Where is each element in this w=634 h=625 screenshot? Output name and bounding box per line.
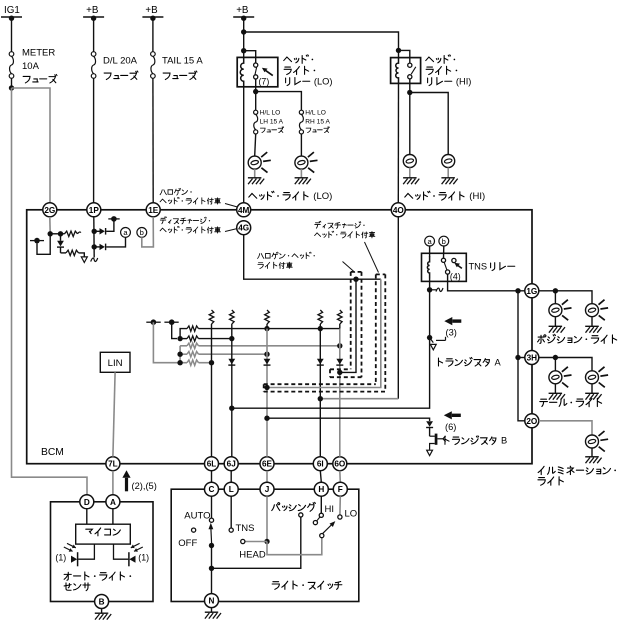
light switch box [171,489,359,601]
svg-text:HEAD: HEAD [239,549,266,560]
svg-text:J: J [265,485,270,494]
diode (1P to node a) [94,244,105,251]
ground tail LH [549,393,565,399]
connector 3H [525,351,539,365]
svg-text:(HI): (HI) [469,191,485,202]
connector 6I [313,457,327,471]
arrow (6) annotation [444,411,461,419]
terminal J [260,482,274,496]
wire D/L fuse to 1P [93,78,95,203]
wire diode to node a [106,237,125,247]
svg-text:H: H [318,485,324,494]
svg-text:4O: 4O [393,206,405,215]
terminal N [205,594,219,608]
relay TNS coil [427,256,429,278]
svg-text:LO: LO [345,508,358,519]
svg-text:(2),(5): (2),(5) [132,481,157,491]
photodiode right [114,543,143,566]
relay LO coil [240,58,243,87]
svg-text:4M: 4M [238,206,250,215]
svg-text:6O: 6O [334,460,346,469]
auto light sensor box [51,502,154,602]
connector 6J [224,457,238,471]
svg-text:(3): (3) [446,327,457,337]
transistor A [427,290,446,350]
node a2 (TNS coil) [425,236,435,246]
resistor pull-up 6E [265,310,270,329]
row5 with resistor [180,360,211,365]
svg-text:3H: 3H [527,353,538,362]
label discharge headlight (4G) [160,217,237,233]
svg-text:OFF: OFF [178,538,197,549]
node tail lamp branch [553,355,558,360]
wire TNS contact to 1G [448,274,525,291]
node b (link to TNS relay contact) [137,228,147,238]
node position lamp branch [553,288,558,293]
lamp illumination [586,431,609,452]
svg-text:L: L [229,485,234,494]
node row4 bus [177,352,182,357]
wire C to AUTO contact [211,496,213,518]
wire HI link [317,517,320,521]
node 1P upper [92,229,97,234]
fuse H/L LO RH 15A [299,110,330,134]
lamp headlight HI LH [403,155,416,168]
svg-text:(LO): (LO) [314,77,333,87]
wire 4G branch horizontal [244,235,381,280]
ground tail RH [585,393,601,399]
wire to LH HI lamp [409,93,411,155]
wire HEAD node to dimmer pivot [267,538,322,555]
label headlight relay HI [426,55,472,87]
wire lamp to ground [554,317,556,326]
wire +B to D/L fuse [93,17,95,52]
fuse H/L LO LH 15A [254,110,284,134]
wire 1E to node b [142,217,154,247]
wire 7L to sensor A [112,471,114,496]
svg-text:b: b [442,237,446,246]
diode (1P to terminal) [94,228,105,235]
node HEAD [264,539,269,544]
node row5-6L [209,360,214,365]
wire +B to TAIL fuse [152,17,154,52]
power source +B (TAIL) [142,5,163,21]
node switch arm [209,543,214,548]
connector 7L [106,457,120,471]
ground position RH [585,326,601,332]
arrow (2),(5) annotation [122,470,130,491]
LIN box [100,352,130,372]
node LO relay contact branch [241,48,246,53]
label position light [538,334,617,343]
wire lamp to ground [554,384,556,393]
wire rail to RH HI lamp [410,93,448,155]
node a (link to TNS relay coil) [121,228,131,238]
svg-text:b: b [140,228,144,237]
wire J to HEAD node [266,496,268,541]
wire F to LO contact [339,496,341,515]
svg-text:N: N [209,597,215,606]
wire HI contact down [409,79,411,93]
diode (6E sense) [264,359,271,365]
ground position LH [549,326,565,332]
terminal L [224,482,238,496]
node LO fuse rail [253,89,258,94]
wire 3H to tail lamps [539,358,592,371]
svg-text:TNS: TNS [236,523,255,534]
wire b2 into TNS box [443,246,445,258]
svg-text:B: B [99,597,105,606]
wire 6I sense line [319,329,321,457]
lamp tail RH [586,367,609,388]
resistor pull-up 6I [318,310,323,329]
svg-text:(6): (6) [445,422,456,432]
power source IG1 [1,5,22,21]
node HI relay contact branch [396,48,401,53]
node row4-6E [264,352,269,357]
ground light switch [205,612,221,618]
label transistor B [445,436,507,446]
svg-text:LH 15 A: LH 15 A [260,118,284,125]
node 2G junction [48,231,53,236]
contact AUTO [209,518,213,522]
svg-text:(LO): (LO) [313,191,332,202]
svg-text:7L: 7L [108,460,118,469]
label transistor A [438,357,501,367]
connector 1E [146,203,160,217]
wire stub down to row2 [172,322,177,338]
fuse METER 10A [9,48,57,83]
arrow (4) annotation [454,263,462,269]
svg-text:2O: 2O [526,417,538,426]
wire 1P down [93,217,95,258]
wire 6I to H [320,471,321,483]
node transB-6E [264,416,269,421]
wire B to ground [101,609,103,614]
wire lamp to ground [591,384,593,393]
svg-text:6L: 6L [207,460,217,469]
label auto light sensor [64,572,131,591]
connector 1G [525,284,539,298]
terminal stub (2G circuit) [30,238,44,244]
svg-text:(1): (1) [55,553,66,563]
fuse D/L 20A [91,52,138,80]
contact HI upper [319,513,323,517]
node passing branch [209,566,214,571]
svg-text:C: C [209,485,215,494]
wire 6E sense line [266,329,268,457]
terminal A [106,495,120,509]
svg-text:A: A [110,498,116,507]
node row2-6J [229,336,234,341]
svg-text:A: A [495,357,502,367]
terminal stub (1P circuit) [108,216,119,222]
resistor (2G lower) [61,248,85,257]
svg-text:H/L LO: H/L LO [260,110,281,117]
open arrow to ground (2G) [81,257,87,263]
svg-text:(1): (1) [138,553,149,563]
contact LO [338,515,342,519]
node TNS coil return [427,287,432,292]
node 1G feed [515,288,520,293]
wire D to microcomputer [86,509,88,524]
terminal stub (supply) [164,319,178,325]
row4 with resistor [180,352,267,357]
wire end tilde (1P) [91,258,98,262]
diode (2G) [57,234,64,247]
connector 1P [87,203,101,217]
switch arm (dimmer) [323,521,336,534]
wire rail to RH fuse [256,92,302,110]
contact dimmer pivot [320,534,324,538]
svg-text:F: F [338,485,343,494]
lamp tail LH [549,367,572,388]
svg-text:RH 15 A: RH 15 A [305,118,330,125]
svg-text:METER: METER [22,48,55,59]
relay LO contact [254,63,258,79]
svg-text:+B: +B [86,5,99,16]
wire METER fuse to junction [11,78,13,88]
microcomputer box [76,524,131,544]
svg-text:1G: 1G [526,287,537,296]
wire LH fuse to lamp [255,134,256,156]
lamp position LH [549,300,572,321]
wire to LH fuse [255,92,257,111]
wire lamp to ground [409,168,411,178]
wire RH fuse to lamp [300,134,302,156]
svg-text:HI: HI [325,504,335,515]
relay headlight HI box [391,58,421,84]
wire 2G down [49,217,51,234]
label discharge headlight (dashed) [315,221,379,272]
diode (6I sense) [317,359,324,365]
stub tilde (TNS) [430,288,443,292]
relay headlight LO box [237,57,278,86]
relay HI coil [396,58,399,84]
wire 6L sense line [211,329,213,457]
connector 6O [333,457,347,471]
node rail-6I [318,326,323,331]
svg-text:4G: 4G [238,224,249,233]
node halogen branch [353,277,358,282]
svg-text:TNS: TNS [469,262,488,272]
BCM box [27,210,532,464]
wire a2 into TNS box [429,246,431,257]
node rail-6E [264,326,269,331]
terminal stub (TAIL sense) [146,319,160,325]
terminal F [333,482,347,496]
wire top rail to HI relay [244,32,399,58]
connector 2O [525,414,539,428]
node 4O-6I [318,396,323,401]
lamp headlight LO RH [295,152,318,173]
wire LO coil return to 4M [243,87,245,203]
wire TNS feed to 3H and 2O [518,291,525,421]
wire lamp to ground [254,169,256,177]
node +B top rail junction [241,29,246,34]
label TNS relay [469,262,515,272]
relay TNS contact [441,258,456,274]
wire L to TNS contact [230,496,232,528]
wire to HEAD contact [245,541,267,543]
wire 6E to transistor B row [267,418,430,421]
wire IG1 rail down left side to sensor D [12,88,88,495]
svg-text:(7): (7) [259,77,270,87]
connector 4M [237,203,251,217]
connector 6L [205,457,219,471]
wire HI coil return to 4O [397,83,399,202]
wire transistor A to 6J line [232,338,430,409]
svg-text:6E: 6E [262,460,273,469]
svg-text:+B: +B [145,5,158,16]
svg-text:(HI): (HI) [456,77,472,87]
svg-text:B: B [501,436,507,446]
wire 6L to C [211,471,213,483]
label halogen headlight (4M) [160,188,237,207]
wire branch to lamp [554,291,556,304]
power source +B (D/L) [83,5,104,21]
row2 with resistor [180,336,232,341]
contact passing [299,513,303,517]
svg-text:BCM: BCM [41,447,64,458]
wire junction to 2G [12,88,51,203]
node b2 (TNS contact) [439,236,449,246]
ground illumination [585,457,601,463]
label illumination light [538,466,616,485]
node diode branch [58,231,63,236]
contact HI lower [313,521,317,525]
label tail light [540,398,602,406]
label halogen headlight (dashed) [258,252,355,272]
node row5 bus [177,360,182,365]
node discharge-6E [264,385,269,390]
svg-text:6J: 6J [227,460,236,469]
svg-text:D/L 20A: D/L 20A [103,56,138,67]
wire 4O row to 6I line [320,398,398,400]
svg-text:IG1: IG1 [4,5,20,16]
wire lamp to ground [591,448,593,456]
terminal B [95,595,109,609]
node IG1 branch [9,85,14,90]
connector 4O [391,203,405,217]
photodiode left [64,543,95,566]
svg-text:TAIL 15 A: TAIL 15 A [162,56,203,67]
svg-text:LIN: LIN [108,358,123,369]
resistor (2G upper) [61,231,81,236]
wire arm to N [211,546,213,594]
label passing [272,502,316,511]
wire 6J to L [230,471,232,483]
terminal C [205,482,219,496]
wire halogen path to 6O line [340,279,356,372]
wire 1G to position lamps [539,291,592,304]
wire LO contact to fuse rail [255,79,257,92]
relay TNS box [422,253,467,281]
lamp position RH [586,300,609,321]
wire lamp to ground [300,169,302,177]
wire 6O to F [339,471,342,483]
ground HI RH lamp [441,178,457,184]
row3 with resistor [180,343,340,348]
svg-text:6I: 6I [317,460,324,469]
svg-text:10A: 10A [22,61,40,72]
arrow (7) annotation [262,68,273,76]
rail with resistor (pull-up rail) [180,326,340,339]
wire branch to HI contact [399,50,410,63]
svg-text:2G: 2G [44,206,55,215]
dashed tube discharge [264,274,386,391]
bus B vertical [179,346,181,363]
label headlight (LO) [249,191,333,202]
node HI lamp rail [407,90,412,95]
wire 2G loop to terminal stub [37,234,50,255]
wire branch to LO contact [244,51,256,63]
wire IG1 to METER fuse [11,17,13,52]
wire lamp to ground [447,168,449,178]
dashed tube halogen [330,272,362,377]
ground LO RH lamp [295,178,311,184]
resistor pull-up 6L [209,310,214,329]
wire TAIL fuse to 1E [152,78,154,203]
svg-text:D: D [84,498,90,507]
node transA-6J [229,406,234,411]
wire 2O to illumination lamp [539,421,592,435]
resistor pull-up 6J [230,310,235,329]
wire 6J sense line [231,329,233,457]
terminal D [80,495,94,509]
contact OFF [192,528,196,532]
wire 6E to J [266,471,268,483]
wire TNS coil return down [429,279,431,290]
power source +B (headlight relays) [233,5,254,21]
node row3-6O [337,343,342,348]
lamp headlight LO LH [248,152,271,173]
svg-text:AUTO: AUTO [184,511,210,522]
label headlight relay LO [284,55,333,87]
diode (6O sense) [336,359,343,365]
relay HI contact [408,63,416,79]
svg-text:1P: 1P [89,206,100,215]
label light switch [272,581,342,589]
resistor pull-up 6O [338,310,343,329]
contact TNS [229,528,233,532]
arrow (3) annotation [444,317,461,325]
fuse TAIL 15A [151,52,204,80]
wire +B down to LO relay [243,17,245,58]
wire 6O sense line [339,329,341,457]
diode (transistor B gate) [426,421,433,427]
wire branch to lamp [554,358,556,371]
ground sensor B [95,613,111,619]
ground LO LH lamp [248,178,264,184]
label headlight (HI) [405,191,485,202]
node row2 bus [177,336,182,341]
diode (6J sense) [228,359,235,365]
switch arm (main) [209,523,214,546]
node halogen-6O [337,370,342,375]
terminal H [314,482,328,496]
wire H to HI contact [320,496,322,513]
svg-text:(4): (4) [450,272,461,282]
svg-text:1E: 1E [148,206,159,215]
wire A to microcomputer [112,509,114,524]
connector 6E [260,457,274,471]
wire passing branch [212,517,301,568]
node 1P lower [92,244,97,249]
wire to resistor [50,233,60,235]
contact HEAD [241,539,245,543]
transistor B [427,428,446,456]
